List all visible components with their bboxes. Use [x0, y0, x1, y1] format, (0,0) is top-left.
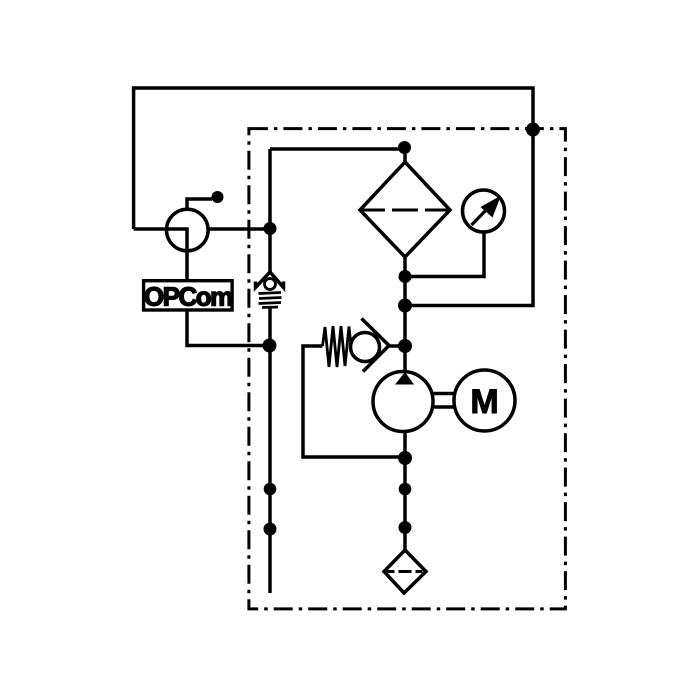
svg-text:OPCom: OPCom — [144, 282, 232, 312]
svg-text:M: M — [470, 383, 498, 421]
